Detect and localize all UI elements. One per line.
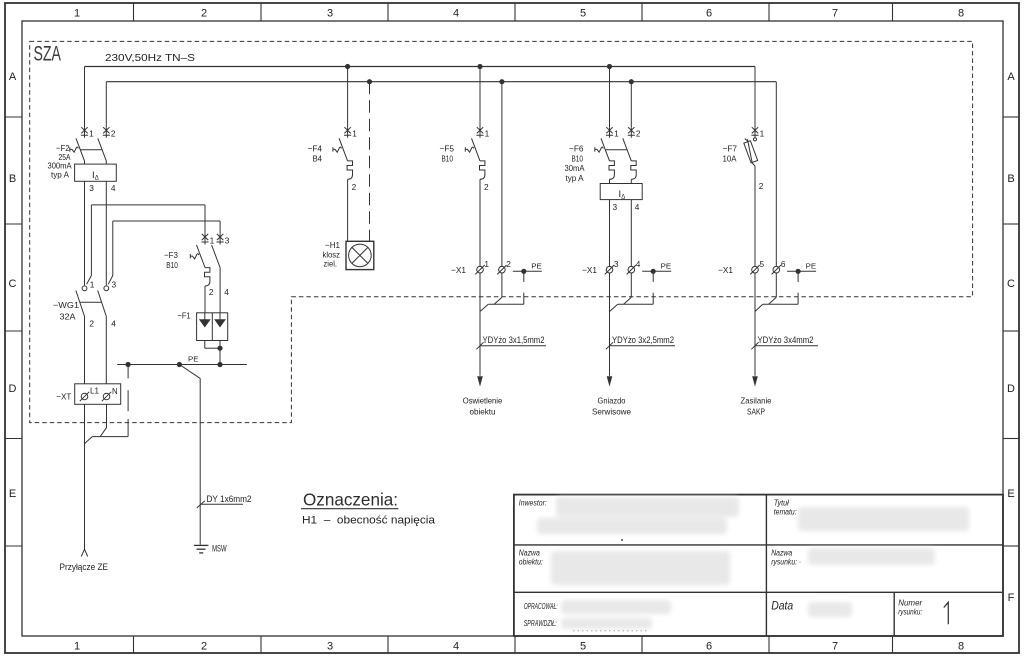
svg-text:2: 2 xyxy=(506,259,511,269)
svg-text:Numer: Numer xyxy=(898,599,922,608)
svg-text:obiektu: obiektu xyxy=(470,406,496,416)
svg-text:−F7: −F7 xyxy=(723,144,738,154)
svg-text:A: A xyxy=(1007,71,1015,83)
svg-text:−F4: −F4 xyxy=(308,144,323,154)
svg-text:B4: B4 xyxy=(313,154,323,164)
svg-text:2: 2 xyxy=(759,181,764,191)
svg-text:SZA: SZA xyxy=(34,42,62,66)
svg-text:−F5: −F5 xyxy=(440,144,455,154)
svg-text:1: 1 xyxy=(485,129,490,139)
svg-text:B10: B10 xyxy=(166,260,178,270)
svg-text:YDYżo 3x1,5mm2: YDYżo 3x1,5mm2 xyxy=(483,335,545,345)
svg-text:B: B xyxy=(1007,173,1014,185)
svg-text:DY 1x6mm2: DY 1x6mm2 xyxy=(207,494,252,504)
svg-text:2: 2 xyxy=(636,129,641,139)
svg-text:D: D xyxy=(9,383,17,395)
svg-text:A: A xyxy=(9,71,17,83)
svg-text:1: 1 xyxy=(760,129,765,139)
svg-text:3: 3 xyxy=(327,8,333,20)
svg-text:2: 2 xyxy=(201,641,207,653)
svg-text:SAKP: SAKP xyxy=(747,406,765,416)
svg-text:−F6: −F6 xyxy=(569,144,584,154)
svg-text:PE: PE xyxy=(531,262,542,271)
svg-text:B: B xyxy=(9,173,16,185)
svg-text:H1 – obecność napięcia: H1 – obecność napięcia xyxy=(302,515,436,527)
svg-text:32A: 32A xyxy=(60,312,76,322)
svg-text:5: 5 xyxy=(580,641,586,653)
svg-text:Zasilanie: Zasilanie xyxy=(741,396,772,406)
svg-text:2: 2 xyxy=(201,8,207,20)
svg-text:MSW: MSW xyxy=(212,543,227,553)
svg-text:10A: 10A xyxy=(723,154,737,164)
svg-text:6: 6 xyxy=(706,8,712,20)
svg-text:4: 4 xyxy=(635,202,640,212)
svg-text:5: 5 xyxy=(580,8,586,20)
svg-text:1: 1 xyxy=(352,129,357,139)
svg-text:YDYżo 3x4mm2: YDYżo 3x4mm2 xyxy=(758,335,814,345)
svg-text:2: 2 xyxy=(484,182,489,192)
svg-text:6: 6 xyxy=(781,259,786,269)
svg-text:1: 1 xyxy=(210,235,215,245)
svg-text:3: 3 xyxy=(225,235,230,245)
svg-text:2: 2 xyxy=(352,182,357,192)
svg-text:3: 3 xyxy=(614,259,619,269)
svg-text:2: 2 xyxy=(209,287,214,297)
svg-text:Data: Data xyxy=(771,601,793,613)
svg-text:C: C xyxy=(1007,278,1015,290)
svg-text:Oswietlenie: Oswietlenie xyxy=(463,396,503,406)
svg-text:N: N xyxy=(112,387,118,396)
svg-text:−X1: −X1 xyxy=(582,265,597,275)
svg-text:Tytuł: Tytuł xyxy=(774,499,789,508)
svg-text:−F1: −F1 xyxy=(178,310,191,320)
svg-text:Δ: Δ xyxy=(95,176,99,182)
svg-text:2: 2 xyxy=(111,129,116,139)
svg-text:4: 4 xyxy=(111,183,116,193)
svg-text:OPRACOWAŁ:: OPRACOWAŁ: xyxy=(524,602,558,611)
svg-text:1: 1 xyxy=(89,129,94,139)
svg-text:4: 4 xyxy=(224,287,229,297)
svg-text:3: 3 xyxy=(112,280,117,290)
svg-text:rysunku: ·: rysunku: · xyxy=(771,558,801,567)
svg-text:3: 3 xyxy=(613,202,618,212)
svg-text:5: 5 xyxy=(760,259,765,269)
svg-text:ziel.: ziel. xyxy=(324,259,338,269)
svg-text:2: 2 xyxy=(89,318,94,328)
svg-text:Gniazdo: Gniazdo xyxy=(598,396,626,406)
svg-text:PE: PE xyxy=(661,262,672,271)
svg-text:−XT: −XT xyxy=(56,392,72,402)
svg-text:1: 1 xyxy=(74,8,80,20)
svg-text:Inwestor:: Inwestor: xyxy=(519,499,547,508)
svg-text:−F3: −F3 xyxy=(164,250,178,260)
svg-text:3: 3 xyxy=(89,183,94,193)
svg-text:1: 1 xyxy=(614,129,619,139)
svg-text:8: 8 xyxy=(958,641,964,653)
svg-text:6: 6 xyxy=(706,641,712,653)
svg-text:tematu:: tematu: xyxy=(774,508,797,517)
svg-text:3: 3 xyxy=(327,641,333,653)
svg-text:YDYżo 3x2,5mm2: YDYżo 3x2,5mm2 xyxy=(612,335,674,345)
svg-text:−X1: −X1 xyxy=(451,265,466,275)
svg-text:4: 4 xyxy=(453,8,459,20)
svg-text:D: D xyxy=(1007,383,1015,395)
svg-text:4: 4 xyxy=(453,641,459,653)
svg-text:30mA: 30mA xyxy=(565,163,585,173)
svg-text:E: E xyxy=(9,488,16,500)
svg-text:C: C xyxy=(9,278,17,290)
svg-text:7: 7 xyxy=(832,641,838,653)
svg-text:Nazwa: Nazwa xyxy=(519,549,540,558)
svg-text:4: 4 xyxy=(636,259,641,269)
svg-text:SPRAWDZIŁ:: SPRAWDZIŁ: xyxy=(524,619,557,628)
svg-text:Oznaczenia:: Oznaczenia: xyxy=(303,490,398,510)
svg-text:typ A: typ A xyxy=(51,169,69,179)
svg-text:1: 1 xyxy=(484,259,489,269)
svg-text:Przyłącze ZE: Przyłącze ZE xyxy=(60,562,109,572)
svg-text:Serwisowe: Serwisowe xyxy=(592,406,631,416)
svg-text:E: E xyxy=(1007,488,1014,500)
svg-text:8: 8 xyxy=(958,8,964,20)
svg-text:1: 1 xyxy=(74,641,80,653)
svg-text:7: 7 xyxy=(832,8,838,20)
svg-text:L1: L1 xyxy=(90,387,99,396)
svg-text:−X1: −X1 xyxy=(718,265,733,275)
svg-text:4: 4 xyxy=(111,318,116,328)
svg-text:1: 1 xyxy=(90,280,95,290)
svg-text:B10: B10 xyxy=(442,154,454,164)
svg-text:230V,50Hz TN–S: 230V,50Hz TN–S xyxy=(105,52,195,64)
svg-text:−WG1: −WG1 xyxy=(53,300,79,310)
svg-text:Δ: Δ xyxy=(621,195,625,201)
svg-text:B10: B10 xyxy=(572,154,584,164)
svg-text:PE: PE xyxy=(806,262,817,271)
svg-text:Nazwa: Nazwa xyxy=(771,549,792,558)
svg-text:obiektu:: obiektu: xyxy=(519,558,543,567)
svg-text:rysunku:: rysunku: xyxy=(898,608,922,617)
svg-text:F: F xyxy=(1008,592,1015,604)
svg-text:PE: PE xyxy=(188,355,199,364)
svg-text:typ A: typ A xyxy=(566,173,584,183)
